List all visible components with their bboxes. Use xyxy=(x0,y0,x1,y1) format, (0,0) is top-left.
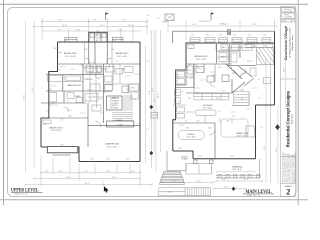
cursor dot xyxy=(105,190,108,191)
stairs main level diag xyxy=(257,48,274,65)
svg-text:9'-0" x 16'-2": 9'-0" x 16'-2" xyxy=(203,107,212,109)
svg-text:Residential Concept Designs: Residential Concept Designs xyxy=(286,90,291,147)
svg-text:8'-2": 8'-2" xyxy=(59,171,63,173)
svg-text:2650: 2650 xyxy=(191,35,194,37)
svg-text:26610: 26610 xyxy=(60,145,64,147)
dim ticks bottom rows upper xyxy=(25,172,154,186)
svg-text:2'-8: 2'-8 xyxy=(93,96,96,98)
svg-text:ROOF DECK: ROOF DECK xyxy=(199,21,212,23)
tub xyxy=(64,75,83,82)
svg-text:11'-6": 11'-6" xyxy=(192,24,197,26)
svg-text:d.r: d.r xyxy=(291,21,294,23)
disclaimer dense text block xyxy=(282,151,297,182)
center top bump xyxy=(89,32,107,42)
kitchen wall xyxy=(186,92,232,94)
svg-text:2-6: 2-6 xyxy=(116,61,118,63)
stairs upper level xyxy=(95,92,133,127)
window ticks upper level xyxy=(40,49,141,162)
interior walls upper level xyxy=(41,32,140,147)
dining table xyxy=(178,130,204,139)
title block divider y156.5 xyxy=(281,156,296,158)
svg-text:5'-2": 5'-2" xyxy=(113,74,116,76)
svg-text:3'-2: 3'-2 xyxy=(104,92,107,94)
svg-text:26610: 26610 xyxy=(230,156,234,158)
mouse cursor xyxy=(104,186,108,193)
bedroom3 top wall xyxy=(41,117,88,119)
room labels main level xyxy=(181,47,248,171)
family room left wall xyxy=(214,123,216,159)
center bath walls xyxy=(94,42,96,64)
mid band walls xyxy=(46,74,103,76)
project name rotated: Beachside Village xyxy=(283,25,294,60)
linen closet xyxy=(48,75,63,81)
micro labels main level xyxy=(176,48,263,159)
roof deck parapet xyxy=(173,31,275,43)
family room rug outline xyxy=(221,119,248,137)
corridor wall xyxy=(186,63,232,65)
section flag marker left plan xyxy=(106,12,109,20)
svg-text:5'-0": 5'-0" xyxy=(196,92,199,94)
dimension scaffold xyxy=(26,19,157,187)
svg-text:12'-2" x 13'-6": 12'-2" x 13'-6" xyxy=(65,56,76,58)
svg-text:14'-0" x 15'-6": 14'-0" x 15'-6" xyxy=(196,59,207,61)
svg-text:BATH ROOM: BATH ROOM xyxy=(67,84,80,87)
svg-text:11'-8" x 13'-6": 11'-8" x 13'-6" xyxy=(117,56,128,58)
svg-text:Galveston, Texas: Galveston, Texas xyxy=(291,35,294,51)
svg-text:6'-8": 6'-8" xyxy=(106,171,110,173)
title block strip 3 xyxy=(282,19,295,22)
left wall upper xyxy=(41,42,58,147)
dim micro texts left plan xyxy=(23,20,156,185)
svg-text:12'-0": 12'-0" xyxy=(276,147,278,152)
top window boxes xyxy=(65,37,123,41)
dim ext vert x34 xyxy=(33,21,35,168)
svg-text:3'-6": 3'-6" xyxy=(222,91,225,93)
svg-text:W.I.C.: W.I.C. xyxy=(222,47,227,49)
svg-text:1-26-2005: 1-26-2005 xyxy=(283,17,293,19)
section diamond right xyxy=(275,124,280,130)
svg-text:10'-6": 10'-6" xyxy=(196,181,201,183)
svg-text:UP: UP xyxy=(134,99,136,101)
page frame top line xyxy=(0,3,308,5)
dining bottom wall xyxy=(173,151,193,159)
dim tick marks top xyxy=(33,20,148,27)
svg-text:2668: 2668 xyxy=(68,116,72,118)
outer walls main level xyxy=(173,31,275,159)
svg-text:12'-4": 12'-4" xyxy=(232,116,236,118)
note box text rows xyxy=(109,97,123,127)
svg-text:2668: 2668 xyxy=(186,128,189,130)
micro texts above window row xyxy=(191,35,266,37)
firm name rotated: Residential Concept Designs xyxy=(286,90,294,147)
bay steps below bedroom3 xyxy=(52,154,71,155)
dim scaffold right plan xyxy=(154,19,286,189)
hall diagonals second xyxy=(222,66,257,86)
svg-text:24'-6": 24'-6" xyxy=(158,93,160,98)
svg-text:Katy, Texas: Katy, Texas xyxy=(290,114,293,124)
gap micro texts xyxy=(146,14,160,131)
title block divider y183.5 xyxy=(281,183,296,185)
svg-text:7'-4": 7'-4" xyxy=(84,171,88,173)
svg-text:2668: 2668 xyxy=(113,40,117,42)
svg-text:26'-0": 26'-0" xyxy=(283,67,285,72)
svg-text:2650: 2650 xyxy=(263,35,266,37)
right wall upper xyxy=(274,31,276,105)
svg-text:2668: 2668 xyxy=(126,159,130,161)
main bottom wall xyxy=(193,158,256,160)
porch columns xyxy=(167,151,213,174)
right step xyxy=(256,104,275,106)
svg-text:14'-6": 14'-6" xyxy=(112,177,117,179)
svg-text:2668: 2668 xyxy=(84,49,87,51)
svg-text:OPEN TO: OPEN TO xyxy=(112,98,120,100)
dim micro texts right plan xyxy=(152,21,285,189)
svg-text:CLOSET: CLOSET xyxy=(116,120,122,122)
svg-text:21'-2": 21'-2" xyxy=(100,25,105,27)
dim arrow bottom xyxy=(232,187,236,191)
svg-text:9'-4": 9'-4" xyxy=(122,20,126,22)
svg-text:3'-6": 3'-6" xyxy=(86,79,89,81)
svg-text:UP: UP xyxy=(258,79,260,81)
svg-text:11'-0" x 12'-4": 11'-0" x 12'-4" xyxy=(51,130,62,132)
svg-text:2-8: 2-8 xyxy=(92,62,94,64)
svg-text:VERANDA: VERANDA xyxy=(232,166,243,169)
svg-text:2668: 2668 xyxy=(106,159,110,161)
bedroom dividers xyxy=(88,42,90,64)
title block divider y79 xyxy=(281,78,296,80)
svg-text:5'-8": 5'-8" xyxy=(76,29,80,31)
bedroom1 right / bath walls xyxy=(216,44,218,63)
extra interior detail main level xyxy=(173,43,273,174)
bottom rows left plan xyxy=(41,172,140,174)
svg-text:2668: 2668 xyxy=(111,49,114,51)
svg-text:5'-4": 5'-4" xyxy=(260,127,263,129)
left boundary xyxy=(173,43,186,151)
chimney hatch block top center xyxy=(227,30,230,36)
bedroom3 bottom bay xyxy=(41,146,47,148)
entry steps fan xyxy=(159,171,184,184)
svg-text:1.07×1.28: 1.07×1.28 xyxy=(283,10,293,13)
stair note box xyxy=(107,96,123,110)
gameroom bottom wall xyxy=(79,161,140,163)
svg-text:5'-6": 5'-6" xyxy=(45,171,49,173)
closet box xyxy=(107,121,134,127)
top ext verts xyxy=(41,19,43,41)
svg-text:2668: 2668 xyxy=(64,40,68,42)
svg-text:LNDRY: LNDRY xyxy=(247,61,252,63)
svg-text:22'-4": 22'-4" xyxy=(32,87,34,92)
dim ticks bottom rows main xyxy=(161,180,263,190)
svg-text:6'-2": 6'-2" xyxy=(244,179,248,181)
svg-text:2668: 2668 xyxy=(178,148,182,150)
svg-text:36'-8": 36'-8" xyxy=(23,95,25,100)
page frame right line xyxy=(297,0,299,205)
svg-text:BEDROOM 1: BEDROOM 1 xyxy=(194,56,208,58)
svg-text:2: 2 xyxy=(286,188,290,197)
svg-text:UTIL: UTIL xyxy=(176,92,179,94)
dim top row 2 xyxy=(34,26,147,28)
page frame left line xyxy=(3,0,5,205)
svg-text:2650: 2650 xyxy=(219,35,222,37)
main top wall xyxy=(185,42,274,44)
interior walls main level xyxy=(173,43,245,159)
chimney box top-left xyxy=(165,14,174,21)
svg-text:GAMEROOM: GAMEROOM xyxy=(105,143,118,146)
svg-text:38'-4": 38'-4" xyxy=(152,87,154,92)
front walkway xyxy=(159,188,211,196)
right wall lower xyxy=(255,105,257,159)
master bath bump rooms xyxy=(176,70,186,85)
svg-text:12'-8": 12'-8" xyxy=(252,24,257,26)
svg-text:2650: 2650 xyxy=(248,35,251,37)
svg-text:PORCH: PORCH xyxy=(181,159,188,161)
window/door micro labels upper level xyxy=(43,31,130,161)
speckle texture upper level xyxy=(50,67,139,114)
svg-text:CLOSET: CLOSET xyxy=(117,125,123,127)
svg-text:8'-4": 8'-4" xyxy=(222,179,226,181)
svg-text:2650: 2650 xyxy=(233,35,236,37)
svg-text:2650: 2650 xyxy=(206,35,209,37)
svg-text:W.I.C.: W.I.C. xyxy=(246,48,251,50)
svg-text:DN: DN xyxy=(241,99,243,101)
svg-text:BEDROOM 2: BEDROOM 2 xyxy=(115,53,129,55)
small utility box left outside xyxy=(151,112,158,118)
UPPER LEVEL title xyxy=(11,188,43,195)
section flag marker right plan xyxy=(211,12,214,20)
bump interior xyxy=(94,32,96,42)
window ticks main level xyxy=(172,42,276,160)
title box1 micro text xyxy=(282,9,293,23)
svg-text:9'-8": 9'-8" xyxy=(93,20,97,22)
svg-text:CL: CL xyxy=(90,37,92,39)
room labels upper level xyxy=(49,35,129,149)
right wall xyxy=(139,42,141,162)
svg-text:40'-6": 40'-6" xyxy=(154,97,156,102)
svg-text:CL: CL xyxy=(102,37,104,39)
svg-text:10'-0": 10'-0" xyxy=(128,25,133,27)
svg-text:LIN: LIN xyxy=(189,48,191,50)
gameroom top wall xyxy=(88,125,140,127)
svg-text:REF: REF xyxy=(188,98,191,100)
svg-text:2020: 2020 xyxy=(96,31,100,33)
MAIN LEVEL title xyxy=(243,190,274,197)
stairs run 2 xyxy=(234,92,249,106)
roof deck window boxes on wall xyxy=(190,38,271,42)
veranda rail xyxy=(216,159,260,178)
walkway steps hatch xyxy=(187,188,208,196)
svg-text:2668: 2668 xyxy=(196,121,200,123)
svg-text:2668: 2668 xyxy=(90,159,94,161)
svg-text:11'-0" x 13'-0": 11'-0" x 13'-0" xyxy=(186,136,196,138)
page frame bottom line xyxy=(0,199,308,201)
door arcs xyxy=(81,63,86,68)
dim wall y123 xyxy=(173,122,215,124)
svg-text:4'-6": 4'-6" xyxy=(131,171,135,173)
sheet number box xyxy=(285,186,293,197)
section diamonds gap xyxy=(149,105,153,109)
svg-text:12'-6": 12'-6" xyxy=(58,20,63,22)
svg-text:26610: 26610 xyxy=(198,156,202,158)
svg-text:2005 Residential Concept Desig: 2005 Residential Concept Designs LLC xyxy=(294,152,297,182)
svg-text:6'-2": 6'-2" xyxy=(157,18,160,20)
dim ext vert x25.5 xyxy=(25,21,27,172)
svg-text:FAMILY RM: FAMILY RM xyxy=(236,132,248,135)
dim top row 1 xyxy=(42,20,147,22)
svg-text:BATH: BATH xyxy=(76,95,81,98)
svg-text:16'-8": 16'-8" xyxy=(66,177,71,179)
outer walls upper level xyxy=(41,32,140,161)
svg-text:3'-0": 3'-0" xyxy=(100,113,103,115)
svg-text:16'-0" x 17'-2": 16'-0" x 17'-2" xyxy=(237,136,248,138)
core density main level xyxy=(186,64,215,93)
svg-text:W/ NOSING: W/ NOSING xyxy=(110,108,119,110)
fixtures main level xyxy=(177,45,271,138)
svg-text:SINK: SINK xyxy=(216,98,219,100)
svg-text:6'-2": 6'-2" xyxy=(58,29,62,31)
svg-text:14'-0": 14'-0" xyxy=(62,25,67,27)
svg-text:5'-4": 5'-4" xyxy=(58,70,61,72)
svg-text:12'-2": 12'-2" xyxy=(224,187,229,189)
core density upper level xyxy=(85,64,130,93)
svg-text:14'-2": 14'-2" xyxy=(224,24,229,26)
fixtures upper level xyxy=(48,63,139,112)
svg-text:2668: 2668 xyxy=(226,121,230,123)
speckle texture main level xyxy=(178,69,258,125)
svg-text:41'-0": 41'-0" xyxy=(85,183,90,185)
kitchen island xyxy=(195,110,216,116)
svg-text:ROOF: ROOF xyxy=(162,22,169,24)
dim top row 3 xyxy=(42,30,88,32)
kitchen counters xyxy=(194,94,229,100)
svg-text:2668: 2668 xyxy=(208,128,211,130)
sheet border rounded xyxy=(8,8,297,197)
svg-text:17'-6" x 13'-0": 17'-6" x 13'-0" xyxy=(107,146,118,148)
svg-text:6'-8": 6'-8" xyxy=(95,92,98,94)
svg-text:2668: 2668 xyxy=(43,124,47,126)
right verts of left plan xyxy=(145,46,147,163)
svg-text:7'-0": 7'-0" xyxy=(118,29,122,31)
svg-text:BEDROOM 3: BEDROOM 3 xyxy=(49,127,63,129)
title block outer box xyxy=(281,7,296,197)
bath fixtures xyxy=(49,93,57,103)
title block box 2 xyxy=(282,13,295,18)
svg-text:LIN: LIN xyxy=(85,66,87,68)
title block box 1 xyxy=(282,8,295,13)
extra interior detail upper level xyxy=(43,34,140,124)
svg-text:19'-4": 19'-4" xyxy=(264,145,266,150)
svg-text:3'-8": 3'-8" xyxy=(147,61,150,63)
svg-text:28'-0" x 8'-0": 28'-0" x 8'-0" xyxy=(233,169,242,171)
bedroom3 right wall xyxy=(87,103,89,147)
top wall xyxy=(58,41,141,43)
svg-text:KITCHEN: KITCHEN xyxy=(203,105,213,107)
hall / pantry diagonals xyxy=(226,64,242,79)
svg-text:BEDROOM 4: BEDROOM 4 xyxy=(64,53,78,55)
svg-text:9'-6": 9'-6" xyxy=(146,129,149,131)
svg-text:DINING: DINING xyxy=(187,134,194,136)
svg-text:2668: 2668 xyxy=(53,48,57,50)
corridor wall xyxy=(58,63,141,65)
